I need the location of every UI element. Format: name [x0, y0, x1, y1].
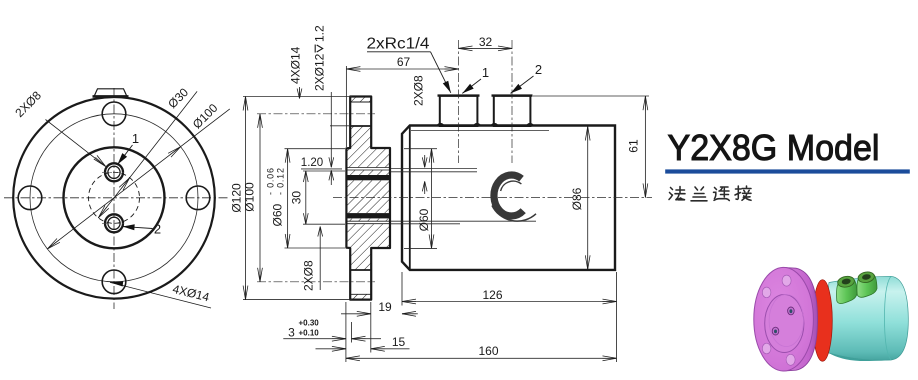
svg-text:2: 2: [154, 222, 161, 237]
svg-text:- 0.12: - 0.12: [276, 168, 286, 195]
3d flange bolt holes: [782, 275, 791, 286]
dim 30: [305, 171, 307, 224]
svg-text:2xRc1/4: 2xRc1/4: [367, 36, 430, 53]
dim D100: [259, 114, 261, 282]
svg-text:1.2: 1.2: [313, 25, 327, 42]
3d pink flange side band: [783, 267, 818, 371]
CJK char jie: [735, 186, 751, 200]
svg-text:32: 32: [479, 35, 493, 49]
flange outline: [346, 97, 390, 300]
bolt hole left: [18, 186, 42, 210]
dim D30 diagonal: [98, 91, 197, 217]
svg-text:Ø60: Ø60: [417, 208, 431, 231]
upper passage lines: [391, 167, 478, 169]
dim D120: [245, 97, 247, 300]
svg-text:1.20: 1.20: [301, 157, 323, 169]
main centerline: [333, 197, 652, 199]
port 2 hole: [105, 214, 123, 232]
port 1: [440, 96, 478, 126]
ext lines bottom: [401, 272, 403, 306]
bolt circle D100 thin: [30, 114, 198, 282]
CJK char fa: [669, 187, 685, 201]
flange outer circle D120: [13, 97, 215, 299]
svg-text:2XØ12: 2XØ12: [313, 53, 327, 91]
groove slot 1.2 lower: [346, 220, 390, 222]
3d body end cap edge: [885, 276, 892, 360]
label 2X D12 depth 1.2: [313, 25, 327, 91]
port centerline 2: [511, 40, 513, 163]
dim 15: [316, 348, 346, 350]
svg-text:4XØ14: 4XØ14: [289, 46, 303, 84]
3d green port B: [857, 271, 877, 298]
svg-text:Ø86: Ø86: [570, 187, 584, 210]
3d pink flange face: [754, 267, 814, 371]
svg-text:4XØ14: 4XØ14: [171, 282, 211, 305]
bolt hole centerline top: [257, 113, 375, 115]
dim 19: [341, 313, 371, 315]
svg-text:2XØ8: 2XØ8: [302, 260, 316, 291]
CJK char lan: [691, 187, 707, 201]
dim 126: [402, 301, 617, 303]
svg-text:+0.10: +0.10: [299, 329, 320, 338]
groove slot 1.2 upper: [346, 167, 390, 169]
port 1 hole: [105, 163, 123, 181]
svg-text:160: 160: [478, 344, 498, 358]
svg-text:1: 1: [482, 65, 489, 80]
svg-text:Ø30: Ø30: [165, 85, 191, 111]
dim 160: [346, 357, 617, 359]
3d cyan body: [826, 276, 908, 360]
bolt hole bottom: [102, 270, 126, 294]
dim 3 +0.30 +0.10: [283, 338, 346, 340]
port top ext line: [533, 95, 649, 97]
ext lines left stack: [243, 96, 352, 98]
dim D100 diagonal: [47, 109, 229, 249]
body outline: [402, 126, 615, 270]
C logo: [492, 175, 536, 221]
oring groove upper: [346, 175, 390, 180]
svg-text:19: 19: [378, 300, 392, 314]
port circle D30 dashed: [89, 172, 140, 223]
bolt hole centerline bottom: [257, 281, 375, 283]
svg-text:2XØ8: 2XØ8: [12, 88, 44, 120]
dim 32: [459, 47, 513, 49]
port centerline 1: [458, 40, 460, 163]
svg-text:Ø100: Ø100: [190, 101, 221, 132]
small dim arrows near D60 label: [424, 155, 426, 167]
3d green port A: [837, 275, 857, 304]
dim 67: [345, 66, 347, 147]
bolt hole edges in flange: [350, 101, 371, 103]
bolt hole right: [186, 186, 210, 210]
3d render group: [754, 267, 909, 371]
dim D60 bore: [404, 148, 437, 150]
svg-text:15: 15: [392, 335, 406, 349]
lower passage lines: [391, 220, 537, 222]
blue underline bar: [665, 169, 910, 173]
3d flange center boss: [765, 295, 804, 353]
flange hatch regions: [350, 98, 371, 103]
3d body bottom shade: [828, 353, 891, 362]
centerline vertical: [113, 88, 115, 309]
svg-text:3: 3: [288, 326, 295, 340]
dim D86: [587, 127, 589, 270]
oring groove lower: [346, 213, 390, 218]
centerline horizontal: [4, 197, 228, 199]
svg-text:61: 61: [627, 139, 641, 153]
bolt hole top: [102, 102, 126, 126]
3d red ring: [813, 280, 833, 362]
top tab: [94, 89, 127, 97]
svg-text:67: 67: [397, 55, 411, 69]
inner boss circle D60: [64, 147, 165, 248]
3d boss port holes: [788, 307, 795, 315]
body inner top line: [411, 130, 549, 132]
port base fillets: [438, 124, 481, 126]
CJK char lian: [714, 187, 730, 201]
dim D60 tol: [287, 149, 289, 248]
svg-text:126: 126: [482, 288, 502, 302]
dim 61: [644, 96, 646, 198]
svg-text:2: 2: [535, 62, 542, 77]
body left cap inner line: [409, 126, 411, 270]
svg-text:Y2X8G Model: Y2X8G Model: [668, 127, 880, 168]
port 2: [494, 96, 531, 126]
svg-text:Ø100: Ø100: [243, 182, 257, 212]
svg-text:2XØ8: 2XØ8: [412, 75, 426, 106]
svg-text:30: 30: [290, 191, 304, 205]
svg-text:- 0.06: - 0.06: [266, 168, 276, 195]
svg-text:Ø60: Ø60: [271, 203, 285, 226]
svg-text:+0.30: +0.30: [299, 319, 320, 328]
svg-text:1: 1: [132, 131, 139, 146]
